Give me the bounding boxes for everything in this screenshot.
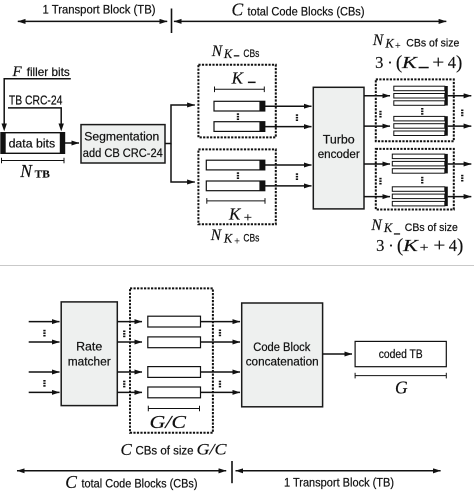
svg-text:): ) xyxy=(457,235,463,256)
svg-text:+: + xyxy=(395,41,401,52)
svg-text:matcher: matcher xyxy=(68,354,111,368)
svg-text:Rate: Rate xyxy=(76,339,102,353)
svg-text:4: 4 xyxy=(448,53,456,72)
svg-text:1 Transport Block (TB): 1 Transport Block (TB) xyxy=(284,476,394,490)
svg-text:K: K xyxy=(223,231,233,245)
svg-text:CBs of size: CBs of size xyxy=(405,222,458,234)
svg-text:coded TB: coded TB xyxy=(379,347,423,361)
svg-text:+: + xyxy=(234,236,240,247)
svg-text:K: K xyxy=(223,47,233,61)
svg-text:3: 3 xyxy=(376,236,384,255)
svg-text:N: N xyxy=(372,32,385,49)
svg-text:K: K xyxy=(401,53,419,72)
svg-text:CBs of size: CBs of size xyxy=(406,37,459,49)
svg-text:CBs of size: CBs of size xyxy=(136,446,194,458)
svg-text:total Code Blocks (CBs): total Code Blocks (CBs) xyxy=(248,4,365,18)
svg-text:CBs: CBs xyxy=(243,48,259,60)
svg-text:Code Block: Code Block xyxy=(253,340,311,354)
svg-text:N: N xyxy=(19,161,33,181)
svg-text:N: N xyxy=(211,43,224,60)
svg-text:G/C: G/C xyxy=(150,412,187,432)
svg-text:TB CRC-24: TB CRC-24 xyxy=(9,94,63,108)
svg-text:+: + xyxy=(433,235,445,255)
svg-text:4: 4 xyxy=(449,236,457,255)
svg-text:+: + xyxy=(420,240,429,255)
svg-text:filler bits: filler bits xyxy=(27,65,70,79)
svg-text:data bits: data bits xyxy=(9,137,56,151)
svg-text:·: · xyxy=(387,53,393,72)
svg-text:C: C xyxy=(65,472,77,492)
svg-text:N: N xyxy=(370,217,383,234)
svg-text:+: + xyxy=(432,52,444,72)
svg-text:concatenation: concatenation xyxy=(246,355,319,369)
svg-text:K: K xyxy=(384,36,394,50)
svg-text:F: F xyxy=(12,64,23,80)
svg-text:add CB CRC-24: add CB CRC-24 xyxy=(83,146,163,160)
svg-text:N: N xyxy=(210,227,223,244)
svg-text:K: K xyxy=(402,236,420,255)
svg-text:K: K xyxy=(231,69,245,88)
svg-text:K: K xyxy=(383,221,393,235)
svg-text:+: + xyxy=(244,209,253,224)
svg-text:1 Transport Block (TB): 1 Transport Block (TB) xyxy=(43,3,156,17)
svg-text:·: · xyxy=(388,236,394,255)
svg-text:C: C xyxy=(121,440,133,459)
svg-text:): ) xyxy=(456,53,462,74)
svg-text:C: C xyxy=(232,0,244,20)
svg-text:total Code Blocks (CBs): total Code Blocks (CBs) xyxy=(82,477,198,491)
svg-text:G: G xyxy=(395,377,408,397)
svg-text:CBs: CBs xyxy=(243,232,259,244)
svg-text:encoder: encoder xyxy=(318,147,360,161)
svg-text:Turbo: Turbo xyxy=(323,132,355,146)
svg-text:3: 3 xyxy=(375,53,383,72)
svg-text:Segmentation: Segmentation xyxy=(84,130,159,144)
svg-text:TB: TB xyxy=(35,169,50,180)
svg-text:K: K xyxy=(228,205,242,224)
svg-text:G/C: G/C xyxy=(197,442,227,459)
